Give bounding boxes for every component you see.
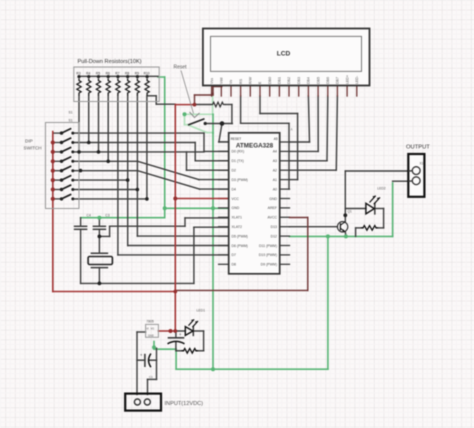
svg-text:DB1: DB1 — [278, 77, 282, 84]
svg-text:D3 (PWM): D3 (PWM) — [232, 178, 248, 182]
svg-text:XLAT1: XLAT1 — [232, 216, 242, 220]
svg-text:GND: GND — [232, 206, 240, 210]
svg-text:AVCC: AVCC — [268, 216, 278, 220]
svg-text:C4: C4 — [87, 214, 91, 218]
svg-text:LED2: LED2 — [377, 187, 386, 191]
svg-text:A0: A0 — [273, 187, 277, 191]
svg-text:Vss: Vss — [210, 78, 214, 84]
svg-text:Vo: Vo — [229, 80, 233, 84]
svg-text:7805: 7805 — [146, 320, 154, 324]
svg-text:AREF: AREF — [268, 206, 277, 210]
svg-text:R4: R4 — [86, 71, 90, 75]
svg-text:OUTPUT: OUTPUT — [406, 145, 430, 151]
svg-text:GND: GND — [148, 334, 154, 338]
svg-text:S1: S1 — [69, 119, 73, 123]
svg-text:X1: X1 — [420, 162, 424, 166]
svg-text:XLAT2: XLAT2 — [232, 225, 242, 229]
svg-text:D13: D13 — [271, 225, 277, 229]
svg-text:DB7: DB7 — [336, 77, 340, 84]
svg-text:A5: A5 — [274, 137, 278, 141]
svg-text:DB2: DB2 — [287, 77, 291, 84]
svg-text:RESET: RESET — [231, 137, 242, 141]
svg-text:R9: R9 — [135, 71, 139, 75]
svg-text:R/W: R/W — [249, 76, 253, 84]
svg-text:D9 (PWM): D9 (PWM) — [261, 263, 277, 267]
svg-text:R7: R7 — [115, 71, 119, 75]
svg-text:C3: C3 — [105, 214, 109, 218]
svg-text:LED+: LED+ — [345, 75, 349, 84]
svg-text:D12: D12 — [271, 234, 277, 238]
svg-text:RS: RS — [239, 78, 243, 84]
svg-text:A4: A4 — [273, 150, 277, 154]
svg-text:Vdd: Vdd — [219, 78, 223, 84]
svg-text:R5: R5 — [96, 71, 100, 75]
svg-text:D10 (PWM): D10 (PWM) — [259, 253, 277, 257]
svg-text:VCC: VCC — [232, 197, 240, 201]
svg-text:R6: R6 — [106, 71, 110, 75]
svg-text:Pull-Down Resistors(10K): Pull-Down Resistors(10K) — [78, 59, 142, 65]
svg-text:R3: R3 — [76, 71, 80, 75]
svg-text:D8: D8 — [232, 263, 237, 267]
svg-text:S1: S1 — [69, 111, 73, 115]
svg-text:A2: A2 — [273, 169, 277, 173]
svg-text:LED1: LED1 — [197, 309, 206, 313]
svg-text:D2: D2 — [232, 169, 237, 173]
svg-text:DB4: DB4 — [307, 77, 311, 84]
svg-text:DB6: DB6 — [326, 77, 330, 84]
svg-text:Q1: Q1 — [348, 210, 352, 214]
svg-text:D0 (RX): D0 (RX) — [232, 150, 245, 154]
svg-text:DB0: DB0 — [268, 77, 272, 84]
svg-text:D1 (TX): D1 (TX) — [232, 159, 244, 163]
svg-text:A3: A3 — [273, 159, 277, 163]
svg-text:D5 (PWM): D5 (PWM) — [232, 234, 248, 238]
svg-text:D6 (PWM): D6 (PWM) — [232, 244, 248, 248]
svg-text:ATMEGA328: ATMEGA328 — [236, 142, 274, 149]
svg-text:C1: C1 — [149, 375, 153, 379]
svg-text:LED-: LED- — [355, 75, 359, 84]
svg-text:D7: D7 — [232, 253, 237, 257]
svg-text:DIP: DIP — [25, 139, 33, 144]
svg-text:DB5: DB5 — [316, 77, 320, 84]
svg-text:D4: D4 — [232, 187, 237, 191]
svg-text:R10: R10 — [144, 71, 150, 75]
svg-text:DB3: DB3 — [297, 77, 301, 84]
svg-text:A1: A1 — [273, 178, 277, 182]
svg-text:R8: R8 — [125, 71, 129, 75]
svg-text:Reset: Reset — [174, 65, 188, 71]
svg-text:VI: VI — [146, 326, 149, 330]
svg-text:VO: VO — [150, 326, 154, 330]
svg-text:LCD: LCD — [277, 51, 291, 58]
svg-text:SWITCH: SWITCH — [24, 146, 42, 151]
svg-text:GND: GND — [269, 197, 277, 201]
svg-text:INPUT(12VDC): INPUT(12VDC) — [165, 401, 204, 407]
svg-text:D11 (PWM): D11 (PWM) — [259, 244, 277, 248]
